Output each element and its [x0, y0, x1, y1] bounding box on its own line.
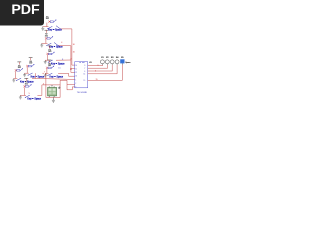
ground DIP bottom	[52, 97, 55, 102]
svg-text:Key = Space: Key = Space	[50, 76, 64, 79]
power VCC bar S6	[48, 60, 52, 63]
wire R7 to switch S7	[23, 87, 25, 95]
wire U3 ground leg	[67, 85, 75, 90]
U3 top pin names	[79, 62, 84, 64]
DIP S9 bottom pins	[49, 96, 54, 97]
svg-text:1kΩ: 1kΩ	[45, 35, 49, 37]
svg-text:1kΩ: 1kΩ	[25, 83, 29, 85]
switch S6 blade	[47, 73, 52, 76]
svg-text:16: 16	[73, 52, 75, 54]
wire switch S7 row	[20, 94, 26, 96]
wire switch S6 row	[45, 72, 48, 74]
wire probe 2 to U3	[88, 65, 108, 69]
resistor R1 symbol	[48, 21, 53, 23]
svg-text:15: 15	[96, 79, 98, 81]
DIP S9 top pins	[49, 86, 54, 87]
key X5 square	[120, 59, 124, 63]
wire S4 drop	[35, 73, 37, 78]
probe X1 pin stub	[101, 64, 103, 65]
wire R1 to switch S1	[46, 23, 48, 27]
svg-text:1kΩ: 1kΩ	[48, 51, 52, 53]
svg-text:8: 8	[62, 59, 63, 61]
switch S1 blade lower	[56, 26, 61, 30]
svg-text:8: 8	[70, 58, 71, 60]
svg-text:15: 15	[58, 67, 60, 69]
switch S6 arrow	[51, 66, 54, 69]
svg-text:X1: X1	[101, 57, 104, 59]
resistor R3 symbol	[47, 53, 52, 55]
wire S5 output	[32, 78, 75, 79]
svg-text:6: 6	[95, 71, 96, 73]
svg-text:X3: X3	[111, 57, 114, 59]
ground S2	[40, 43, 43, 47]
ground S1	[41, 27, 44, 31]
ground S7	[19, 95, 22, 99]
resistor R2 symbol	[45, 37, 50, 39]
junction node	[70, 68, 72, 70]
switch S2 blade lower	[54, 43, 59, 47]
PDF badge	[0, 0, 44, 26]
resistor R4 label	[29, 61, 33, 65]
wire probe 4 to U3	[88, 65, 117, 74]
probe X3 lamp	[110, 60, 114, 64]
wire probe 3 to U3	[88, 65, 113, 71]
power VCC bar S2	[45, 30, 49, 33]
ground S3	[44, 60, 47, 64]
svg-text:X4: X4	[116, 57, 119, 59]
resistor R2 label	[45, 34, 49, 38]
switch S3 arrow	[52, 52, 55, 55]
svg-text:1kΩ: 1kΩ	[18, 67, 22, 69]
wire switch S3 row	[45, 59, 49, 61]
svg-text:1kΩ: 1kΩ	[48, 65, 52, 67]
wire S7 output	[37, 85, 60, 96]
switch S4 blade	[28, 73, 33, 76]
power VCC bar S5	[17, 62, 21, 65]
resistor R1 label	[46, 17, 50, 21]
wire switch S4 row	[24, 72, 28, 74]
svg-text:13: 13	[75, 76, 77, 78]
ground DIP	[58, 86, 61, 88]
key X5 pin stub	[121, 63, 123, 65]
svg-text:X2: X2	[106, 57, 109, 59]
probe X2 pin stub	[106, 64, 108, 65]
wire bus to DIP	[60, 80, 75, 97]
probe X1 lamp	[100, 60, 104, 64]
wire S3 output	[56, 60, 75, 72]
wire S1 output	[60, 29, 74, 65]
probe X4 pin stub	[116, 64, 118, 65]
switch S2 blade	[46, 43, 51, 46]
svg-text:11: 11	[75, 68, 77, 70]
svg-text:10: 10	[73, 44, 75, 46]
resistor R7 symbol	[24, 85, 29, 87]
svg-text:4: 4	[61, 42, 62, 44]
wire probe 1 to U3	[88, 65, 103, 66]
resistor R6 label	[48, 63, 52, 67]
switch S5 blade	[16, 78, 21, 81]
op-amp U3 74LS148 body	[75, 62, 88, 88]
svg-text:9: 9	[98, 65, 99, 67]
probe X3 pin stub	[111, 64, 113, 65]
switch S2 arrow	[50, 36, 53, 39]
wire DIP bottom	[46, 74, 60, 98]
switch S7 arrow	[29, 84, 32, 87]
wire switch S2 row	[42, 42, 48, 44]
svg-text:74LS148D: 74LS148D	[77, 92, 88, 94]
switch S1 arrow	[54, 20, 57, 23]
svg-text:12: 12	[75, 72, 77, 74]
resistor R5 label	[18, 65, 22, 69]
wire S6 output	[58, 73, 75, 76]
switch S1 blade	[47, 26, 52, 29]
switch S3 blade	[48, 60, 53, 63]
svg-text:7: 7	[44, 72, 45, 74]
svg-text:PDF: PDF	[11, 2, 40, 18]
svg-text:5: 5	[29, 93, 30, 95]
probe X2 lamp	[105, 60, 109, 64]
ground S5	[12, 78, 15, 82]
ground S6	[44, 73, 47, 77]
svg-text:14: 14	[84, 74, 86, 76]
svg-text:15: 15	[84, 80, 86, 82]
svg-text:1kΩ: 1kΩ	[29, 63, 33, 65]
resistor R4 symbol	[26, 65, 31, 67]
svg-text:X5: X5	[121, 57, 124, 59]
svg-text:Key = Space: Key = Space	[31, 75, 45, 78]
switch S4 arrow	[32, 64, 35, 67]
svg-text:10: 10	[75, 65, 77, 67]
svg-text:1kΩ: 1kΩ	[46, 18, 50, 20]
svg-text:Space: Space	[125, 62, 130, 64]
wire S4 output	[42, 72, 44, 74]
wire switch S5 row	[14, 77, 18, 79]
resistor R3 label	[48, 49, 52, 53]
resistor R7 label	[25, 82, 29, 86]
power VCC bar S4	[29, 58, 33, 61]
switch S7 blade	[25, 95, 30, 98]
wire probe 5 to U3	[88, 65, 123, 81]
svg-text:3: 3	[43, 83, 44, 85]
power VCC bar S3	[48, 46, 52, 49]
switch S5 arrow	[20, 68, 23, 71]
wire R2 to switch S2	[45, 39, 47, 43]
wire R6 to switch S6	[46, 69, 48, 74]
resistor R5 symbol	[15, 69, 20, 71]
ground S4	[23, 73, 26, 77]
svg-text:Key = Space: Key = Space	[27, 98, 41, 101]
probe X4 lamp	[115, 60, 119, 64]
DIP switch S9 body	[48, 87, 57, 96]
power VCC bar S7	[24, 78, 28, 81]
wire R5 to switch S5	[15, 71, 17, 78]
wire R3 to switch S3	[46, 55, 48, 60]
resistor R6 symbol	[46, 67, 51, 69]
svg-text:Key = Space: Key = Space	[51, 62, 65, 65]
wire R4 to switch S4	[26, 67, 28, 73]
wire switch S1 row	[43, 26, 49, 28]
svg-text:U3: U3	[89, 62, 93, 64]
wire S2 output	[58, 46, 74, 70]
